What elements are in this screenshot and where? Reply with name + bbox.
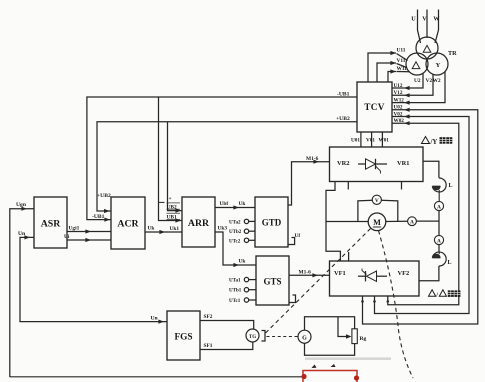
op-amp GTD gate trigger (fwd) bbox=[255, 197, 288, 247]
svg-text:+UB2: +UB2 bbox=[97, 193, 111, 199]
node Ugn input + left feedback rail bbox=[10, 209, 34, 377]
node Uf output symbol of GTD bbox=[288, 238, 295, 245]
svg-text:A: A bbox=[410, 220, 414, 226]
svg-text:A: A bbox=[437, 204, 441, 210]
svg-text:ARR: ARR bbox=[188, 218, 210, 229]
node tap to ARR UB1 bbox=[159, 97, 183, 221]
wire V phase in bbox=[426, 10, 428, 39]
svg-text:/Y: /Y bbox=[430, 139, 438, 146]
thyristor symbol in VF bbox=[358, 275, 366, 277]
wire W12 from wye secondary bbox=[392, 72, 445, 103]
svg-text:ASR: ASR bbox=[41, 219, 62, 230]
wire W11 bbox=[388, 72, 396, 83]
wire Uk ACR to ARR bbox=[145, 231, 182, 233]
ammeter A upper bbox=[434, 201, 443, 210]
svg-text:V: V bbox=[375, 198, 379, 204]
wire Ubf/Uk ARR to GTD bbox=[215, 207, 255, 209]
svg-text:TG: TG bbox=[249, 335, 256, 340]
diode bridge VR reverse group box bbox=[330, 147, 424, 182]
wire Ugi1 ASR to ACR bbox=[67, 231, 111, 233]
label UB1 at ARR bbox=[167, 212, 181, 214]
svg-text:SF2: SF2 bbox=[204, 314, 213, 320]
node tap to ARR UB2 bbox=[168, 122, 183, 211]
node stub pin 2 bbox=[347, 182, 349, 190]
svg-text:UTa2: UTa2 bbox=[229, 220, 241, 225]
op-amp ASR speed regulator bbox=[34, 197, 67, 248]
op-amp ACR current regulator bbox=[111, 197, 145, 249]
wire U12 from delta secondary bbox=[392, 74, 423, 89]
node UTb2 terminal bbox=[244, 229, 248, 233]
svg-text:W02: W02 bbox=[394, 118, 405, 124]
ammeter A lower bbox=[434, 235, 443, 244]
inductor L bottom reactor bbox=[432, 252, 446, 266]
svg-text:Rg: Rg bbox=[360, 336, 367, 342]
wire +UB2 bus: TCV left to ACR input bbox=[97, 122, 357, 211]
svg-text:U2: U2 bbox=[414, 78, 421, 84]
node Un input to ASR bbox=[20, 237, 167, 321]
wire SF2 FGS to TG bbox=[200, 321, 254, 330]
wire dashed shaft M to TG bbox=[266, 229, 371, 334]
svg-text:Ubf: Ubf bbox=[220, 201, 229, 207]
svg-text:Uk: Uk bbox=[239, 201, 246, 207]
svg-text:M: M bbox=[373, 218, 381, 227]
wire V12 from wye secondary bbox=[392, 75, 433, 96]
svg-text:-UB1: -UB1 bbox=[92, 214, 105, 220]
wire -UB1 bus: TCV left to ACR input bbox=[87, 97, 357, 220]
wire bottom feedback line bbox=[10, 376, 303, 378]
svg-text:M1-6: M1-6 bbox=[299, 269, 312, 275]
wire V02 to VF bridge bbox=[375, 117, 470, 314]
svg-text:UTc2: UTc2 bbox=[229, 239, 241, 244]
wire U02 to VF bridge bbox=[363, 110, 478, 324]
wire M1-6 GTD to VR bridge bbox=[288, 162, 329, 205]
svg-text:W2: W2 bbox=[433, 78, 441, 84]
svg-text:Uk: Uk bbox=[239, 258, 246, 264]
svg-text:L: L bbox=[448, 260, 452, 266]
op-amp FGS bbox=[167, 311, 200, 360]
svg-text:Ui: Ui bbox=[64, 234, 70, 240]
wire VR bottom pin to main dc bus bbox=[326, 182, 340, 262]
svg-text:Ugn: Ugn bbox=[16, 202, 27, 208]
svg-text:V11: V11 bbox=[397, 58, 406, 64]
svg-text:SF1: SF1 bbox=[204, 343, 213, 349]
op-amp ARR logic controller bbox=[182, 197, 215, 247]
node UTa1 terminal bbox=[244, 277, 248, 281]
svg-text:GTS: GTS bbox=[263, 277, 281, 287]
svg-text:Uk3: Uk3 bbox=[218, 226, 228, 232]
resistor Rg rheostat bbox=[352, 329, 357, 344]
svg-text:W: W bbox=[433, 16, 440, 23]
svg-text:+: + bbox=[169, 196, 172, 202]
label UB2 at ARR with + sign bbox=[159, 201, 165, 203]
wire chain down to VF right bbox=[419, 266, 439, 281]
svg-text:TR: TR bbox=[448, 50, 457, 57]
svg-text:V01: V01 bbox=[366, 138, 375, 144]
wire dashed TG to G bbox=[267, 336, 299, 338]
svg-text:Ugi1: Ugi1 bbox=[69, 225, 80, 231]
svg-text:G: G bbox=[302, 335, 307, 341]
wire Uk3 ARR to GTS bbox=[215, 232, 256, 265]
svg-text:V02: V02 bbox=[394, 111, 403, 117]
node UTc2 terminal bbox=[244, 238, 248, 242]
svg-text:GTD: GTD bbox=[262, 218, 282, 228]
svg-text:VF1: VF1 bbox=[334, 270, 346, 277]
node output symbol of GTS bbox=[289, 295, 296, 303]
svg-text:V: V bbox=[422, 16, 427, 23]
node UTb1 terminal bbox=[244, 288, 248, 292]
node UTc1 terminal bbox=[244, 298, 248, 302]
node label delta/delta forward group bbox=[429, 290, 436, 296]
svg-text:TCV: TCV bbox=[364, 102, 385, 112]
wire U11 bbox=[368, 53, 396, 82]
ammeter A armature bbox=[408, 217, 417, 226]
svg-text:-UB1: -UB1 bbox=[337, 91, 350, 97]
svg-text:ACR: ACR bbox=[117, 219, 139, 230]
node stub pin 3 bbox=[401, 182, 403, 190]
svg-text:UTb1: UTb1 bbox=[229, 289, 242, 294]
node gray scan band bbox=[305, 357, 391, 360]
inductor L top reactor bbox=[432, 178, 446, 202]
transistor TG tachogenerator bbox=[246, 329, 259, 342]
wire W02 to VF bridge bbox=[388, 123, 459, 305]
svg-text:UTc1: UTc1 bbox=[229, 299, 241, 304]
wire dashed M to load (bottom) bbox=[379, 231, 414, 379]
op-amp GTS gate trigger (rev) bbox=[256, 256, 289, 305]
svg-text:Un: Un bbox=[18, 231, 26, 237]
transformer TR primary circle bbox=[416, 37, 438, 59]
svg-text:W11: W11 bbox=[397, 66, 408, 72]
op-amp TCV bbox=[357, 82, 392, 132]
svg-text:Y: Y bbox=[436, 62, 441, 69]
wire SF1 FGS to TG bbox=[200, 342, 253, 350]
transistor G exciter bbox=[298, 330, 311, 343]
svg-text:A: A bbox=[437, 238, 441, 244]
node stub pin on VF top bbox=[348, 252, 350, 261]
svg-text:UTa1: UTa1 bbox=[229, 279, 241, 284]
wire U01 bbox=[360, 132, 362, 147]
node red stamp box bbox=[301, 364, 359, 382]
svg-text:/: / bbox=[435, 292, 438, 299]
wire Ui to ACR bbox=[67, 239, 111, 241]
svg-text:UTb2: UTb2 bbox=[229, 230, 242, 235]
svg-text:V2: V2 bbox=[426, 78, 433, 84]
node coupling bracket bbox=[262, 331, 266, 342]
motor M bbox=[368, 213, 386, 231]
thyristor symbol in VR bbox=[358, 163, 366, 165]
diode bridge VF forward group box bbox=[330, 261, 420, 296]
svg-text:U02: U02 bbox=[394, 105, 403, 111]
svg-text:Un: Un bbox=[151, 316, 159, 322]
svg-text:W01: W01 bbox=[379, 138, 390, 144]
wire V11 bbox=[377, 63, 396, 82]
svg-text:U01: U01 bbox=[351, 138, 360, 144]
svg-text:Uk1: Uk1 bbox=[170, 226, 180, 232]
svg-text:U11: U11 bbox=[397, 48, 406, 54]
svg-text:FGS: FGS bbox=[174, 333, 192, 343]
svg-text:VR1: VR1 bbox=[397, 160, 409, 167]
transformer TR wye secondary circle bbox=[426, 53, 448, 75]
svg-text:U: U bbox=[411, 16, 416, 23]
voltmeter V bbox=[358, 200, 373, 221]
svg-text:VR2: VR2 bbox=[337, 160, 349, 167]
transformer TR delta secondary circle bbox=[406, 53, 428, 75]
svg-text:L: L bbox=[449, 183, 453, 189]
node label delta/Y reverse group bbox=[422, 137, 430, 144]
wire M1-6 GTS to VF bridge bbox=[289, 274, 330, 276]
svg-text:Uf: Uf bbox=[295, 233, 301, 239]
wire G field loop bbox=[305, 317, 355, 331]
wire W01 bbox=[381, 132, 383, 147]
wire VR right to reactor chain bbox=[423, 161, 439, 178]
wire V01 bbox=[371, 132, 373, 147]
wire W phase in bbox=[435, 10, 439, 44]
svg-text:W12: W12 bbox=[394, 97, 405, 103]
svg-text:VF2: VF2 bbox=[398, 270, 410, 277]
svg-text:V12: V12 bbox=[394, 90, 403, 96]
svg-text:Uk: Uk bbox=[148, 225, 155, 231]
wire dc bus through motor bbox=[326, 221, 368, 223]
node UTa2 terminal bbox=[244, 219, 248, 223]
svg-text:+UB2: +UB2 bbox=[336, 116, 350, 122]
svg-text:M1-6: M1-6 bbox=[306, 156, 319, 162]
svg-text:U12: U12 bbox=[394, 83, 403, 89]
wire Un to FGS bbox=[158, 320, 164, 324]
wire U phase in bbox=[418, 10, 421, 44]
